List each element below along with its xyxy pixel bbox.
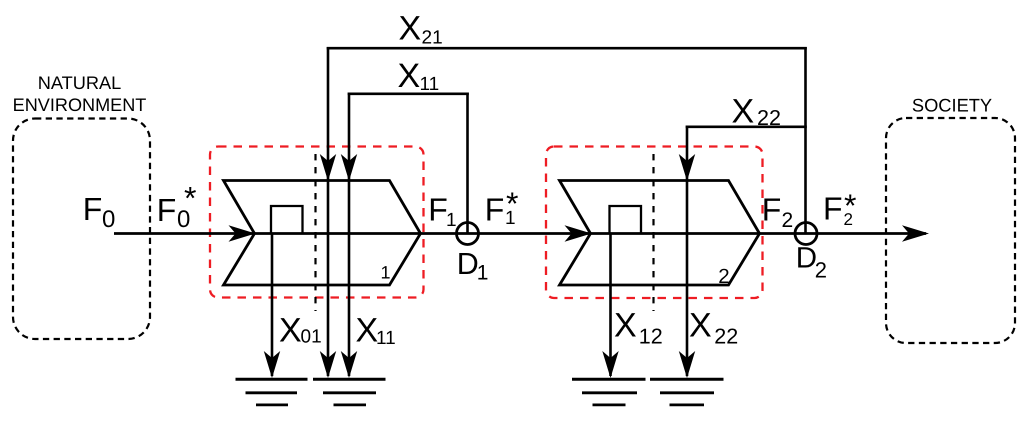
- svg-text:F: F: [83, 191, 103, 227]
- wire X11 feedback horizontal: [348, 93, 469, 96]
- junction node D2: [795, 223, 817, 245]
- svg-text:2: 2: [718, 265, 729, 288]
- wire X21 feedback horizontal: [327, 47, 807, 50]
- label F2*: [823, 188, 856, 229]
- inner tank rect of process 1: [271, 206, 303, 234]
- svg-text:D: D: [457, 247, 479, 281]
- arrowhead X01 into ground 1: [264, 351, 280, 378]
- svg-text:X: X: [398, 57, 421, 95]
- svg-text:1: 1: [477, 262, 489, 285]
- svg-text:NATURAL: NATURAL: [38, 73, 122, 93]
- svg-text:F: F: [428, 191, 448, 227]
- svg-text:X: X: [279, 312, 302, 350]
- arrowhead into process 1: [229, 225, 256, 241]
- label X11 bottom: [356, 312, 396, 350]
- label X22 top: [732, 93, 781, 131]
- wire X01 drain to ground: [271, 234, 274, 377]
- svg-text:1: 1: [381, 263, 391, 283]
- svg-text:SOCIETY: SOCIETY: [912, 95, 992, 116]
- svg-text:*: *: [844, 188, 856, 224]
- label F0: [83, 191, 116, 233]
- svg-text:X: X: [614, 306, 637, 344]
- label F0*: [157, 180, 197, 233]
- svg-text:*: *: [506, 186, 518, 222]
- arrowhead X21 into ground 2: [320, 351, 336, 378]
- wire X21 vertical drop into process 1: [327, 47, 330, 376]
- label F1*: [485, 186, 519, 230]
- svg-text:11: 11: [420, 74, 440, 95]
- arrowhead into process 2: [565, 225, 592, 241]
- label X12: [614, 306, 663, 348]
- label F1: [428, 191, 456, 231]
- arrowhead into society: [902, 225, 929, 241]
- svg-text:F: F: [823, 191, 843, 227]
- svg-text:F: F: [157, 192, 177, 228]
- arrowhead X21 onto process 1 top: [320, 154, 336, 181]
- svg-text:X: X: [732, 93, 755, 131]
- label D1: [457, 247, 489, 285]
- wire X12 drain to ground: [609, 234, 612, 377]
- label NATURAL ENVIRONMENT: [13, 73, 147, 115]
- label X22 bottom: [689, 306, 738, 348]
- arrowhead X11 onto process 1 top: [341, 154, 357, 181]
- svg-text:X: X: [689, 306, 712, 344]
- arrowhead X22 into ground 4: [679, 351, 695, 378]
- dashed partition line in process 1: [314, 154, 316, 311]
- label X01: [279, 312, 322, 350]
- label D2: [796, 242, 827, 283]
- wire X11 vertical drop into process 1: [348, 93, 351, 377]
- ground 4: [650, 379, 724, 405]
- natural environment boundary box: [13, 119, 150, 340]
- inner tank rect of process 2: [610, 206, 642, 234]
- svg-text:21: 21: [422, 28, 443, 49]
- process symbol 1: [224, 181, 421, 286]
- red dashed boundary box 2: [546, 147, 763, 299]
- arrowhead X12 into ground 3: [602, 351, 618, 378]
- wire X11 vertical riser from D1: [466, 93, 469, 234]
- wire main flow line F0 to society: [114, 232, 926, 235]
- svg-text:01: 01: [301, 326, 322, 347]
- label X11 top: [398, 57, 440, 95]
- svg-text:X: X: [356, 312, 379, 350]
- svg-text:22: 22: [714, 324, 738, 348]
- ground 2: [313, 379, 386, 405]
- wire X21 vertical riser from D2: [804, 47, 807, 234]
- svg-text:F: F: [485, 191, 505, 227]
- svg-text:0: 0: [102, 206, 115, 233]
- svg-text:12: 12: [639, 324, 663, 348]
- junction node D1: [457, 223, 479, 245]
- svg-text:1: 1: [446, 210, 457, 231]
- process symbol 2: [560, 181, 760, 286]
- svg-text:22: 22: [757, 106, 781, 130]
- ground 3: [572, 379, 646, 405]
- dashed partition line in process 2: [652, 154, 654, 311]
- label F2: [762, 192, 793, 233]
- label X21: [399, 10, 443, 49]
- svg-text:11: 11: [376, 328, 396, 349]
- arrowhead X11 into ground 2: [341, 351, 357, 378]
- svg-text:2: 2: [815, 257, 827, 282]
- wire X22 feedback horizontal: [686, 126, 807, 129]
- svg-text:*: *: [184, 180, 196, 216]
- svg-text:2: 2: [782, 209, 794, 232]
- ground 1: [236, 379, 308, 405]
- society boundary box: [886, 118, 1015, 343]
- arrowhead X22 onto process 2 top: [679, 154, 695, 181]
- red dashed boundary box 1: [210, 147, 424, 298]
- svg-text:X: X: [399, 10, 422, 48]
- wire X22 vertical drop into process 2: [686, 126, 689, 377]
- svg-text:F: F: [762, 192, 782, 228]
- svg-text:ENVIRONMENT: ENVIRONMENT: [13, 95, 147, 115]
